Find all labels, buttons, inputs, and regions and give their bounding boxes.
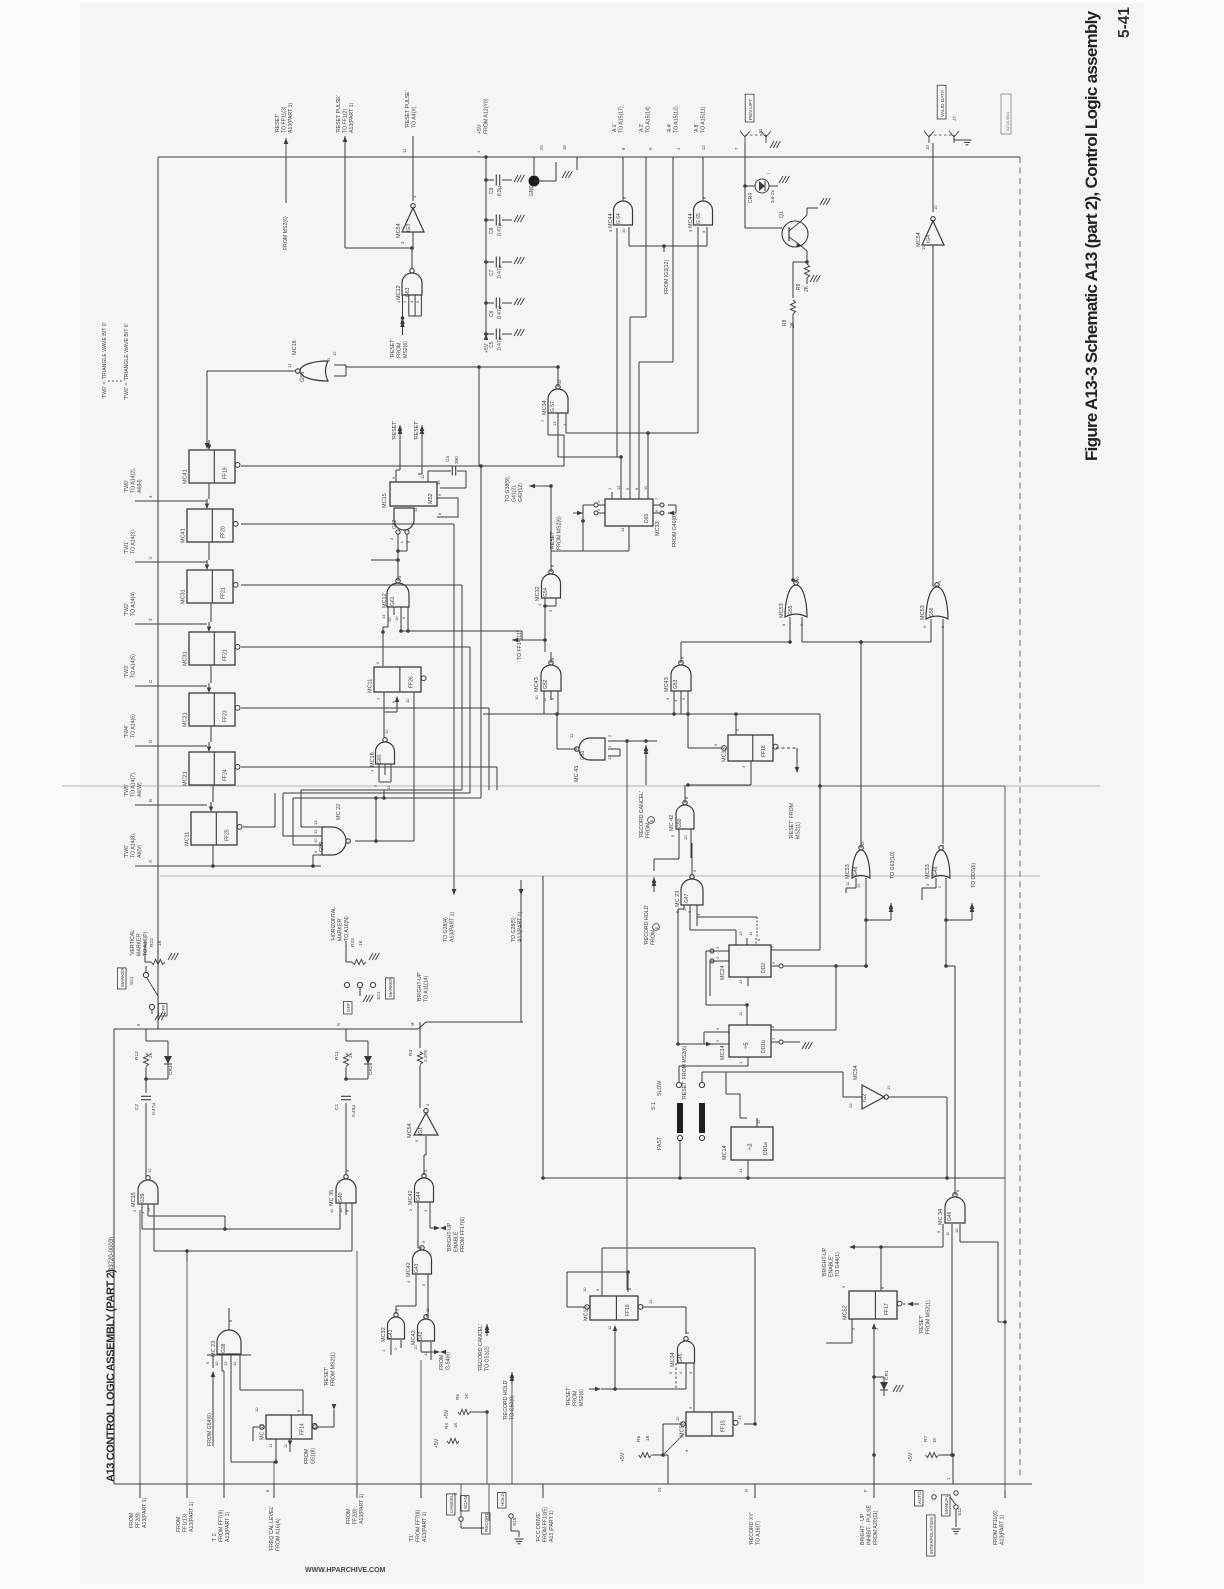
wire IG2 output down [888, 1096, 947, 1098]
net TW output 'TW4' [135, 745, 207, 747]
pin DD2 bottom [747, 977, 749, 986]
gate G46 MC34 nand [945, 1193, 965, 1223]
ground S21 v [151, 1010, 153, 1014]
svg-text:IG2: IG2 [862, 1094, 868, 1102]
svg-text:J: J [676, 148, 681, 150]
svg-text:A13(PART 1): A13(PART 1) [359, 1493, 365, 1524]
wire MS2 right loop [437, 498, 458, 517]
wire TO G28(5) link [520, 889, 522, 1022]
svg-text:18: 18 [562, 145, 567, 150]
wire G38 input stubs [207, 1354, 251, 1356]
wire FF18 pin6 [688, 747, 721, 749]
wire G57 pin1 long [566, 432, 698, 434]
wire ff14 out right [313, 1425, 318, 1430]
svg-text:IG4: IG4 [926, 235, 932, 243]
arrow bright-up enable left [848, 1246, 850, 1248]
svg-text:1K: 1K [932, 1438, 937, 1443]
svg-text:A6(H): A6(H) [137, 479, 143, 493]
svg-text:MC12: MC12 [396, 285, 402, 300]
wire Q1 emitter to R9 [800, 245, 807, 251]
svg-text:'RESET': 'RESET' [919, 1315, 925, 1334]
svg-text:A6(W): A6(W) [137, 782, 143, 797]
wire G50 out up [684, 785, 686, 803]
pins DD2 left [715, 950, 729, 952]
svg-text:1K: 1K [358, 939, 364, 946]
svg-text:MC42: MC42 [406, 1262, 412, 1277]
svg-text:G54: G54 [543, 587, 549, 597]
svg-text:G51(8): G51(8) [310, 1448, 316, 1464]
svg-text:MC54: MC54 [916, 232, 922, 247]
inverter IG2 MC54 [862, 1085, 888, 1109]
svg-text:R11: R11 [334, 1051, 340, 1060]
svg-text:'TW5': 'TW5' [124, 784, 130, 797]
svg-text:PEN LIFT: PEN LIFT [748, 99, 754, 120]
antenna J7 left [928, 137, 930, 143]
svg-text:K: K [648, 147, 653, 150]
svg-text:G62: G62 [392, 519, 398, 529]
svg-text:Q1: Q1 [779, 211, 785, 218]
wire IG3 input [412, 232, 414, 248]
arrow record cancel up1 [486, 1323, 488, 1325]
capacitor C6 [486, 302, 494, 304]
wire penlift to CR4 Q1 [744, 157, 746, 186]
arrow from G46 to D03 [668, 512, 676, 514]
svg-text:MC53: MC53 [845, 864, 851, 879]
svg-text:FF17: FF17 [884, 1303, 890, 1315]
capacitor C7 [486, 261, 494, 263]
wire R23 left [346, 961, 352, 963]
arrow TO G28(4) [452, 889, 457, 895]
svg-text:+5V: +5V [477, 124, 483, 134]
svg-text:FF26: FF26 [408, 676, 414, 688]
wire right border corner [1009, 156, 1020, 158]
svg-text:MC43: MC43 [664, 677, 670, 692]
svg-text:TO A16(N): TO A16(N) [344, 916, 350, 941]
svg-text:TO A14(5): TO A14(5) [130, 654, 136, 678]
svg-text:'TW6' = 'TRIANGLE WAVE BIT 6': 'TW6' = 'TRIANGLE WAVE BIT 6' [124, 323, 130, 400]
wire top +5V bus [158, 156, 1009, 158]
capacitor C8 [486, 219, 494, 221]
svg-text:MS2(6): MS2(6) [579, 1389, 585, 1406]
wire G60 to bundle [379, 782, 381, 793]
wire record hold vertical [511, 1372, 513, 1484]
wire fcc vertical 543 [542, 876, 544, 1178]
ground R23 [369, 953, 373, 960]
svg-text:'RESET': 'RESET' [566, 1387, 572, 1406]
wire S-N-M horizontal border [114, 1022, 523, 1029]
svg-text:MC53: MC53 [920, 605, 926, 620]
svg-text:13: 13 [552, 421, 557, 426]
ground J7 [953, 135, 955, 140]
svg-text:14: 14 [738, 1168, 743, 1173]
decoder D03 MC33 [605, 499, 653, 526]
wire FF26 clock arrow [395, 696, 399, 702]
wire G53 inputs [673, 691, 675, 714]
wire bright-up inhibit up [872, 1453, 876, 1457]
svg-text:FROM FF17(6): FROM FF17(6) [460, 1217, 466, 1252]
svg-text:390: 390 [454, 456, 459, 464]
wire FF24 output stub [241, 766, 497, 768]
svg-text:13: 13 [146, 1207, 151, 1212]
svg-text:24: 24 [539, 145, 544, 150]
svg-text:G55: G55 [788, 605, 794, 615]
svg-text:MC52: MC52 [843, 1305, 849, 1320]
svg-text:MC14: MC14 [720, 1045, 726, 1060]
svg-text:'HORIZONTAL: 'HORIZONTAL [331, 907, 337, 941]
svg-text:G41: G41 [388, 1329, 394, 1339]
svg-text:G 64: G 64 [616, 213, 622, 224]
wire DD1b top feeder [746, 1005, 748, 1018]
wire G47 pin feeders [678, 908, 684, 910]
connector PEN LIFT J6 [745, 94, 754, 122]
gate G42 MC42 nand [418, 1315, 435, 1341]
wire pin18 stub [576, 157, 578, 170]
svg-text:G59: G59 [319, 842, 325, 852]
svg-text:'RESET' FROM: 'RESET' FROM [789, 803, 795, 839]
gate G55 MC53 nor [785, 581, 807, 617]
wire G56 output up [936, 585, 938, 587]
antenna J6 left [744, 137, 746, 143]
wire bus J staircase to D03 pin8 [672, 157, 674, 362]
svg-text:R6: R6 [636, 1436, 642, 1442]
svg-text:10: 10 [534, 695, 539, 700]
svg-text:FF24: FF24 [223, 769, 229, 781]
wire long bus py714 [530, 713, 820, 715]
wire G39-G40 link 1251 [154, 1250, 352, 1252]
svg-text:A13(PART 1): A13(PART 1) [142, 1497, 148, 1528]
wire G55 output up [795, 580, 797, 583]
svg-text:'RECORD XY': 'RECORD XY' [749, 1512, 755, 1545]
svg-text:MC32: MC32 [381, 1327, 387, 1342]
arrow reset ff14 [332, 1404, 337, 1410]
svg-text:MC14: MC14 [722, 1145, 728, 1160]
svg-text:FF1(13): FF1(13) [182, 1513, 188, 1532]
ground CR4 [779, 176, 783, 183]
svg-text:0.47µ: 0.47µ [151, 1103, 157, 1115]
svg-text:M52: M52 [428, 493, 434, 504]
gate G45 MC34 nand [678, 1337, 695, 1363]
svg-text:'A 2': 'A 2' [639, 124, 645, 133]
svg-text:HOLD: HOLD [500, 1493, 505, 1506]
gate G39 MC35 nand [138, 1176, 158, 1204]
svg-text:MC18: MC18 [370, 752, 376, 767]
svg-text:A13 (PART 1): A13 (PART 1) [549, 1510, 555, 1542]
svg-text:TO G38(9),: TO G38(9), [505, 476, 511, 502]
svg-text:FF19: FF19 [223, 467, 229, 479]
svg-text:'TW6': 'TW6' [124, 845, 130, 858]
svg-text:G41(2),: G41(2), [511, 484, 517, 502]
svg-text:FF18: FF18 [761, 745, 767, 757]
flip-flop FF23 MC21 [189, 693, 235, 726]
svg-text:MC54: MC54 [396, 223, 402, 238]
flip-flop FF14 MC52 [266, 1415, 312, 1439]
wire R7 right [939, 1454, 953, 1456]
wire FF19 clock arrow [207, 445, 211, 451]
svg-text:3.6-2V: 3.6-2V [770, 189, 775, 203]
capacitor C9 [486, 179, 494, 181]
wire FF14 left in [253, 1426, 259, 1428]
wire FF20 output feeder to G28(4) [241, 523, 454, 525]
svg-text:A13(PART 1): A13(PART 1) [189, 1501, 195, 1532]
flip-flop FF18 MC13 [728, 735, 773, 761]
svg-text:A13 CONTROL LOGIC ASSEMBLY (P: A13 CONTROL LOGIC ASSEMBLY (PART 2) [105, 1269, 117, 1482]
svg-text:'RECORD CANCEL': 'RECORD CANCEL' [639, 791, 645, 838]
arrow RESET to FF11 [285, 138, 287, 158]
svg-text:G58: G58 [300, 372, 306, 382]
diode CR1 [880, 1382, 888, 1390]
svg-text:A13(PART 1): A13(PART 1) [288, 102, 294, 133]
svg-text:21: 21 [657, 1487, 662, 1492]
svg-text:TO A14(3): TO A14(3) [130, 530, 136, 554]
svg-text:FF23: FF23 [223, 710, 229, 722]
resistor R11 2K [343, 1054, 348, 1067]
svg-text:TO A15(17): TO A15(17) [618, 106, 624, 133]
svg-text:TO FF11(3): TO FF11(3) [281, 106, 287, 133]
svg-text:FF14: FF14 [300, 1423, 306, 1435]
svg-text:0.47µ: 0.47µ [497, 337, 503, 350]
wire right dashed border [1019, 157, 1021, 1480]
divider DD1a MC14 [731, 1127, 773, 1160]
inverter IG4 MC54 [922, 217, 944, 245]
divider DD1b MC14 [729, 1025, 771, 1057]
net TW output 'TW0' [135, 500, 207, 502]
wire CR1 up [883, 1377, 885, 1382]
svg-text:IG3: IG3 [406, 224, 412, 232]
arrow RESET FROM MS2(6) ff16 [595, 1387, 601, 1392]
svg-text:MC12: MC12 [382, 593, 388, 608]
antenna J6 right [765, 137, 767, 143]
wire vertical 479 down [478, 367, 480, 466]
stamp 03720-0031 [1001, 94, 1011, 134]
svg-text:FROM IG2(12): FROM IG2(12) [664, 259, 670, 294]
svg-text:R7: R7 [923, 1436, 929, 1442]
wire FF20 clock arrow [205, 504, 209, 510]
svg-text:'T1': 'T1' [409, 1534, 415, 1542]
wire G61 pins to py631 [400, 615, 402, 631]
gate G60 MC18 nand [376, 738, 395, 764]
gate G41 MC32 nand [388, 1313, 405, 1339]
svg-text:FROM MS2(6): FROM MS2(6) [556, 516, 562, 550]
gate G59 MC22 nand [322, 827, 350, 855]
wire MS2 pin6 up [395, 470, 397, 482]
svg-text:FROM: FROM [645, 823, 651, 838]
svg-text:TO G51(2): TO G51(2) [484, 1346, 490, 1371]
svg-text:A13(PART 1): A13(PART 1) [422, 1511, 428, 1542]
inverter IG3 MC54 [402, 204, 424, 232]
svg-text:FROM G54(6): FROM G54(6) [207, 1413, 213, 1446]
svg-text:30: 30 [436, 480, 441, 485]
wire G61 output up [397, 581, 399, 583]
wire R4 to node [459, 1440, 461, 1442]
wire G65 output up [702, 157, 704, 201]
wire G58 to FF19 preset [206, 371, 208, 444]
wire 627 vertical [626, 741, 628, 1290]
svg-text:'BRIGHT-UP: 'BRIGHT-UP [447, 1222, 453, 1252]
wire FF14 pins down [275, 1439, 277, 1462]
boxed label MARKER v [117, 968, 126, 989]
wire FF18 pin3 to G50 area [750, 770, 752, 785]
svg-text:CR1: CR1 [884, 1370, 890, 1380]
svg-text:MC54: MC54 [853, 1065, 859, 1080]
wire G53 output up to G55 [680, 642, 682, 663]
boxed label INTERPOLATION [926, 1515, 935, 1556]
wire G57 junction feed [479, 366, 558, 368]
wire py631 link to G52 area [401, 630, 522, 632]
boxed label OFF h [343, 1001, 352, 1014]
wire G52 inputs [543, 691, 545, 714]
ground S19 [518, 1531, 520, 1537]
svg-text:FROM MS2(6): FROM MS2(6) [283, 216, 289, 250]
svg-text:TO FF1(2): TO FF1(2) [342, 109, 348, 133]
arrow RESET ms2 pin6 [399, 424, 401, 426]
wire G45 pin3 to FF15 [693, 1363, 695, 1368]
svg-text:MC 22: MC 22 [336, 804, 342, 820]
resistor R12 2K [143, 1054, 148, 1067]
gate G44 MC42 nand [415, 1174, 434, 1202]
wire G38 pin13 to FF14 junction [231, 1461, 276, 1463]
svg-text:MC24: MC24 [720, 965, 726, 980]
paper crease line 2 [160, 875, 1040, 877]
inverter IG1 MC54 [414, 1109, 438, 1135]
wire fcc stub [542, 1484, 544, 1498]
wire FF21 clock arrow [207, 627, 211, 633]
node GND blob [529, 176, 540, 187]
arrow reset from MS2(1) A [795, 767, 800, 773]
svg-text:MS2(1): MS2(1) [795, 822, 801, 839]
svg-text:R5: R5 [455, 1394, 460, 1400]
svg-text:MC 23: MC 23 [675, 891, 681, 907]
arrow TO G28(5) [520, 894, 522, 896]
svg-text:MS2(6): MS2(6) [403, 341, 409, 358]
svg-text:G56: G56 [929, 607, 935, 617]
wire FF19 out to G57 pin7 [481, 465, 564, 467]
wire G40 inputs [339, 1203, 341, 1229]
pins DD1b right [771, 1029, 779, 1031]
svg-text:10: 10 [621, 228, 626, 233]
wire FF17 pin3 clock [872, 1323, 876, 1329]
svg-text:OFF: OFF [161, 1005, 166, 1014]
transistor Q1 [782, 221, 808, 247]
svg-text:FROM: FROM [304, 1449, 310, 1464]
wire G38 pin12 to FF14 pin8 [240, 1389, 303, 1391]
svg-text:M: M [410, 1022, 415, 1026]
svg-text:12: 12 [856, 883, 861, 888]
svg-text:'T 1': 'T 1' [212, 1533, 218, 1542]
paper crease line 1 [62, 785, 1100, 787]
svg-text:G63: G63 [405, 287, 411, 297]
flip-flop FF20 MC41 [187, 509, 233, 542]
wire G61 pin13 to FF26 [387, 615, 389, 627]
wire FF17 pin6 up [880, 1247, 882, 1291]
svg-text:FROM A12(Y0): FROM A12(Y0) [483, 98, 489, 134]
wire FF14 pin12 junction [233, 1461, 276, 1463]
wire G48 output up [860, 642, 862, 848]
arrow TO FF14 [512, 639, 522, 641]
svg-text:MC43: MC43 [534, 677, 540, 692]
switch S1 fast contacts [677, 1135, 682, 1140]
svg-text:12: 12 [886, 1085, 891, 1090]
svg-text:TO G28(5): TO G28(5) [511, 917, 517, 942]
boxed label RECORD [481, 1513, 490, 1534]
svg-text:÷5: ÷5 [744, 1042, 750, 1049]
switch S21 horizontal [344, 982, 349, 987]
svg-text:0.47µ: 0.47µ [497, 265, 503, 278]
antenna J7 right [953, 137, 955, 143]
svg-text:TO A15(12): TO A15(12) [673, 106, 679, 133]
svg-text:DD2: DD2 [761, 963, 767, 973]
svg-text:G45: G45 [678, 1353, 684, 1363]
wire dashed note connector [108, 380, 124, 382]
gate G52 MC43 nand [541, 661, 561, 691]
wire G50 inputs [678, 829, 680, 848]
svg-text:MC 43: MC 43 [574, 766, 580, 782]
wire R5 to node [470, 1411, 487, 1413]
wire FF16 clock [613, 1325, 617, 1331]
svg-text:TO A16(T): TO A16(T) [755, 1521, 761, 1545]
svg-text:'VERTICAL: 'VERTICAL [130, 930, 136, 956]
svg-text:CR3: CR3 [168, 1065, 174, 1075]
svg-text:C8: C8 [489, 227, 495, 234]
gate G50 MC42 nand [676, 801, 694, 829]
svg-text:A13(PART 1): A13(PART 1) [349, 102, 355, 133]
flip-flop FF24 MC21 [189, 752, 235, 785]
svg-text:R23: R23 [350, 938, 356, 947]
svg-text:GND: GND [529, 185, 535, 197]
gate G49 MC53 nor [932, 846, 950, 878]
svg-text:÷2: ÷2 [748, 1143, 754, 1150]
pin bubble FF16 left [585, 1305, 590, 1310]
wire G54 to G52 [544, 612, 546, 640]
wire valid data down to IG4 [932, 143, 934, 212]
wire G57 inputs [547, 413, 549, 430]
boxed label MARKER h [385, 978, 394, 999]
gate G63 MC12 [402, 269, 422, 295]
wire J6 dashes [745, 134, 766, 136]
pin DD1b bottom [747, 1057, 749, 1066]
pins DD2 right [771, 949, 779, 951]
resistor R8 2K [790, 300, 795, 314]
svg-text:'BRIGHT-UP': 'BRIGHT-UP' [417, 972, 423, 1002]
wire DD1b pin8 out [779, 1029, 836, 1031]
svg-text:MC 35: MC 35 [329, 1190, 335, 1206]
one-shot MS2 MC15 [390, 482, 437, 506]
wire G64 output up [622, 157, 624, 201]
svg-text:S19: S19 [512, 1517, 518, 1526]
svg-text:'TW0' = 'TRIANGLE WAVE BIT 0': 'TW0' = 'TRIANGLE WAVE BIT 0' [102, 322, 108, 399]
wire FF22 output feeder [241, 646, 470, 648]
wire S1 fast to bottom [679, 1141, 681, 1178]
svg-text:G-54(6): G-54(6) [445, 1352, 451, 1370]
boxed label OFF v [158, 1003, 167, 1016]
net TW output 'TW5' [135, 804, 207, 806]
pin bubble FF18 left [722, 746, 727, 751]
svg-text:FROM MS2(1): FROM MS2(1) [330, 1352, 336, 1386]
svg-text:INTERPOLATION: INTERPOLATION [929, 1517, 934, 1554]
svg-text:C2: C2 [134, 1104, 140, 1110]
svg-text:1K: 1K [157, 939, 163, 946]
wire IG4 input down [932, 245, 934, 587]
circle auto contact [932, 1495, 936, 1499]
svg-text:VALID DATA: VALID DATA [940, 89, 946, 117]
svg-text:MC34: MC34 [670, 1352, 676, 1367]
svg-text:BRIGHT - UP: BRIGHT - UP [860, 1513, 866, 1545]
svg-text:FROM: FROM [572, 1391, 578, 1406]
pins G63 inputs [402, 295, 404, 305]
resistor R3 2.37K [417, 1052, 422, 1065]
connector VALID DATA J7 [937, 85, 946, 119]
svg-text:13: 13 [381, 614, 386, 619]
wire G46 inputs [942, 1224, 944, 1247]
